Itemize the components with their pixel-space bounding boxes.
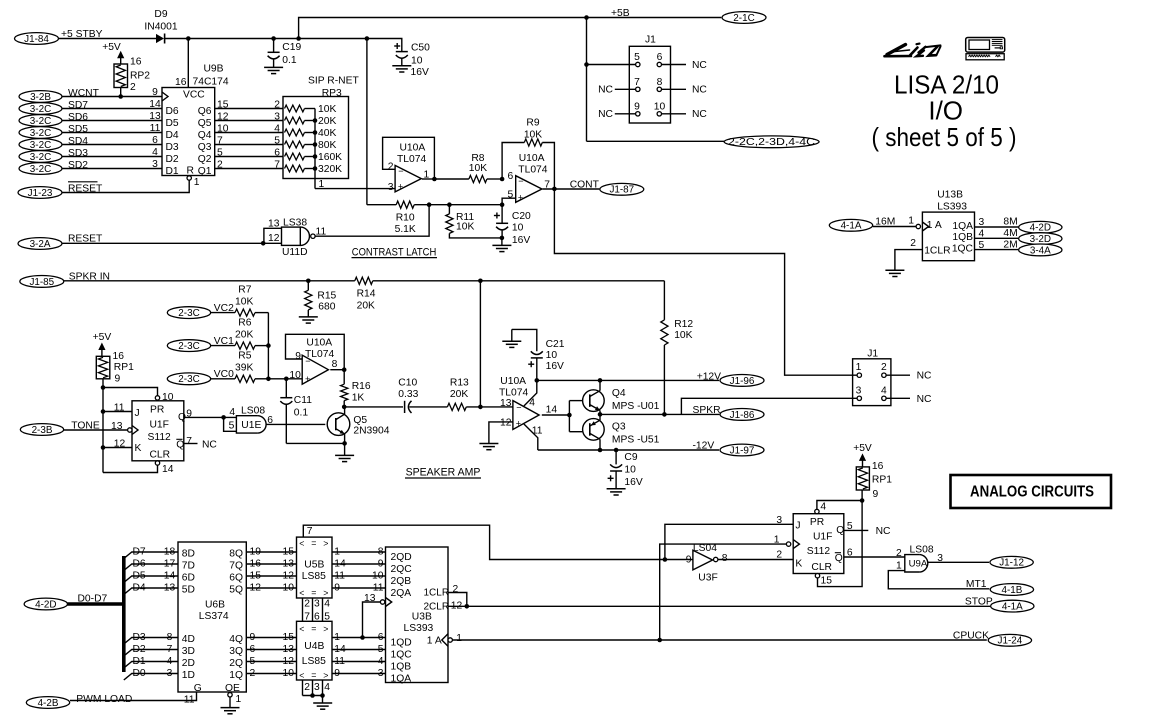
svg-text:+: + [518,193,523,203]
svg-text:16: 16 [130,57,142,68]
op-amp U10A (contrast) TL074 [516,176,542,203]
svg-text:+: + [398,181,403,191]
svg-text:16: 16 [175,77,187,88]
wire SD6 [62,120,162,122]
junction U11D inputs [261,241,266,246]
resistor RP3 element 80K [285,141,305,148]
svg-text:5: 5 [217,148,223,159]
wire U9A output [928,561,989,563]
svg-text:+5V: +5V [102,42,121,53]
junction output/base bus [567,413,572,418]
svg-text:4-2B: 4-2B [38,698,59,709]
junction node pin5 [500,202,505,207]
pin 6 J1 [657,62,661,66]
pin 10 J1 [657,112,661,116]
svg-text:U11D: U11D [282,247,308,258]
svg-text:3-2C: 3-2C [30,152,51,163]
svg-text:5D: 5D [182,584,195,595]
svg-text:U9B: U9B [204,64,224,75]
svg-text:4: 4 [378,656,384,667]
svg-text:J1-87: J1-87 [609,185,634,196]
svg-text:CONTRAST LATCH: CONTRAST LATCH [352,246,437,258]
svg-text:−: − [516,402,521,412]
svg-text:Q5: Q5 [353,415,367,426]
resistor R7 10K [211,312,235,314]
wire U6B 1Q [246,673,296,675]
IC U9B 74C174 box [162,88,215,176]
svg-text:Q: Q [836,525,844,536]
svg-text:1: 1 [194,177,200,188]
svg-text:74C174: 74C174 [193,77,229,88]
wire SD3 [62,156,162,158]
svg-text:17: 17 [164,558,176,569]
transistor Q3 MPS-U51 [583,419,605,441]
bus D0-D7 [68,602,124,606]
junction at D9/U9B VCC [186,36,191,41]
svg-text:TL074: TL074 [499,388,528,399]
svg-text:R: R [187,166,194,177]
wire CONT to J1 pin1 [554,189,857,375]
op-amp1 feedback wire [422,178,435,180]
svg-text:2: 2 [896,548,902,559]
svg-text:2QD: 2QD [391,552,412,563]
svg-text:15: 15 [821,576,833,587]
svg-text:8: 8 [722,553,728,564]
svg-text:1: 1 [896,560,902,571]
svg-text:1: 1 [424,170,430,181]
svg-text:10K: 10K [456,222,474,233]
wire STOP [448,605,990,607]
wire U6B 3Q [246,649,296,651]
svg-text:14: 14 [164,570,176,581]
svg-text:LS08: LS08 [910,544,934,555]
svg-text:1CLR: 1CLR [924,246,950,257]
wire 16M [873,226,916,228]
wire pin5 riser [502,198,516,205]
IC U6B LS374 box [178,542,246,692]
capacitor C20 10 16V [501,205,503,223]
svg-text:MPS -U51: MPS -U51 [612,434,660,445]
junction SPKR node [598,412,603,417]
svg-text:2QC: 2QC [391,564,413,575]
junction U3F input [663,557,668,562]
junction Q/U1E [221,415,226,420]
pin 3 J1b [857,396,861,400]
svg-text:20K: 20K [357,301,375,312]
svg-text:8: 8 [332,359,338,370]
label box ANALOG CIRCUITS [951,475,1112,508]
svg-text:13: 13 [283,644,295,655]
svg-text:7D: 7D [182,560,195,571]
svg-text:80K: 80K [318,140,336,151]
wire U4B out 2 [332,661,386,663]
junction R12/SPKR [662,412,667,417]
wire SPKR [600,413,719,415]
svg-text:14: 14 [546,404,558,415]
pin 1 J1b [857,373,861,377]
svg-text:3: 3 [314,598,320,609]
svg-text:5: 5 [847,521,853,532]
svg-text:16: 16 [113,351,125,362]
svg-text:3: 3 [167,668,173,679]
svg-text:U13B: U13B [937,189,963,200]
op-amp U10A (buffer) TL074 [395,165,421,192]
svg-text:2: 2 [881,362,887,373]
wire J1 pin 7 NC [615,88,636,90]
svg-text:RP1: RP1 [872,475,892,486]
svg-text:6Q: 6Q [229,572,243,583]
connector oval 3-4A [1019,244,1062,256]
svg-text:13: 13 [149,111,161,122]
svg-text:10: 10 [283,582,295,593]
junction R13 drop [478,279,483,284]
svg-text:1QB: 1QB [391,662,412,673]
svg-text:15: 15 [250,570,262,581]
svg-text:K: K [795,559,802,570]
junction R10/U11D [427,202,432,207]
svg-text:9: 9 [115,373,121,384]
flip-flop U1F S112 box [132,401,184,461]
svg-text:PR: PR [810,517,824,528]
wire U11D output [315,205,429,237]
capacitor C10 0.33 [344,406,403,408]
svg-text:10: 10 [546,350,558,361]
resistor R6 20K [211,345,235,347]
svg-text:3: 3 [378,668,384,679]
wire D0 [124,674,178,681]
svg-text:15: 15 [217,100,229,111]
Lisa script logo [885,44,941,57]
wire U6B 6Q [246,575,296,577]
junction U4B gnd b [320,693,325,698]
svg-text:G: G [194,683,202,694]
and gate U1E LS08 [224,417,237,431]
svg-text:J1: J1 [867,348,878,359]
wire CONT output [543,188,600,190]
junction VC1 [266,343,271,348]
wire TONE [64,429,128,431]
svg-text:SPKR: SPKR [693,405,721,416]
svg-text:16: 16 [250,558,262,569]
svg-text:C50: C50 [411,42,430,53]
junction R10/R11 [447,202,452,207]
wire U5B pin7 net [303,525,665,559]
svg-text:3: 3 [152,159,158,170]
junction RP3 bus [313,142,318,147]
svg-text:R5: R5 [238,351,251,362]
svg-text:1Q: 1Q [229,670,243,681]
svg-text:1: 1 [908,215,914,226]
connector oval 4-2D [1019,221,1062,233]
junction RP3 bus [313,130,318,135]
wire D3 [124,638,178,645]
svg-text:2QB: 2QB [391,576,412,587]
svg-text:U10A: U10A [500,376,526,387]
svg-text:C11: C11 [294,395,312,406]
connector oval 3-2A [18,238,62,250]
svg-text:4: 4 [820,502,826,513]
wire U6B 8Q [246,551,296,553]
resistor R14 20K [355,277,373,284]
svg-text:9: 9 [686,554,692,565]
wire D2 [124,650,178,657]
junction R16 top [342,367,347,372]
svg-text:4-1B: 4-1B [1001,585,1022,596]
svg-text:4D: 4D [182,634,195,645]
svg-text:+: + [516,418,521,428]
connector oval 4-1A (16M) [829,219,872,231]
svg-text:6: 6 [274,148,280,159]
connector oval 3-2B (WCNT) [19,91,62,103]
svg-text:4M: 4M [1003,228,1017,239]
svg-text:10: 10 [512,222,524,233]
junction RP3 bus [313,154,318,159]
inverter U3F LS04 [665,559,693,561]
wire U4B out 1 [332,649,386,651]
svg-text:J1-96: J1-96 [730,376,755,387]
svg-text:S112: S112 [148,432,172,443]
transistor Q5 2N3904 [327,413,350,436]
junction C21/+12V [535,378,540,383]
reset bubble U9B pin 1 [187,176,191,180]
svg-text:2CLR: 2CLR [424,602,450,613]
junction R8/pin6 [500,177,505,182]
svg-text:D9: D9 [154,9,167,20]
svg-text:12: 12 [250,582,262,593]
svg-text:4: 4 [881,385,887,396]
svg-text:D7: D7 [133,546,146,557]
svg-text:( sheet 5 of 5 ): ( sheet 5 of 5 ) [872,122,1017,152]
svg-text:16V: 16V [624,477,642,488]
svg-text:STOP: STOP [965,596,993,607]
wire drop to R13 node [479,281,481,407]
wire U4B out 3 [332,673,386,675]
connector oval 4-2B [26,697,69,709]
svg-text:U9A: U9A [909,558,928,569]
svg-text:7: 7 [634,77,640,88]
connector oval J1-12 [990,556,1033,568]
wire WCNT [62,96,162,98]
svg-text:9: 9 [295,351,301,362]
wire pin12 ground [489,422,513,444]
svg-text:=: = [311,538,316,548]
svg-text:7: 7 [186,436,192,447]
ground C20 [501,238,503,246]
junction RP3 bus [313,166,318,171]
svg-text:R14: R14 [357,289,376,300]
svg-text:11: 11 [334,570,345,581]
IC U4B LS85 box [297,621,333,680]
junction K [101,445,106,450]
svg-text:CONT: CONT [570,179,600,190]
wire Q output [184,416,237,418]
svg-text:U3F: U3F [698,573,717,584]
svg-text:14: 14 [149,99,161,110]
connector J1 (pins 1-4) box [853,359,891,406]
wire RESET 3-2A [62,242,263,244]
svg-text:1CLR: 1CLR [424,588,450,599]
connector oval 3-2C (SD4) [19,139,62,151]
svg-text:D5: D5 [166,118,179,129]
svg-text:18: 18 [164,546,176,557]
svg-text:D2: D2 [166,154,179,165]
svg-text:-12V: -12V [693,441,715,452]
svg-text:11: 11 [114,403,125,414]
wire U1E out to Q5 base [266,423,325,425]
svg-text:10K: 10K [469,163,487,174]
pin 2 J1b [882,373,886,377]
svg-text:TONE: TONE [71,421,100,432]
svg-text:20K: 20K [318,116,336,127]
wire Qbar to U9A [844,556,905,558]
svg-text:9: 9 [186,408,192,419]
svg-text:+12V: +12V [697,372,721,383]
wire J1 pin 8 NC [662,88,687,90]
wire RP2 to WCNT [120,88,122,97]
svg-text:−: − [305,356,310,366]
svg-text:13: 13 [268,218,280,229]
svg-text:2: 2 [130,82,136,93]
junction 1CLR/2CLR [465,604,470,609]
svg-text:NC: NC [917,371,932,382]
svg-text:1QD: 1QD [391,638,412,649]
svg-text:680: 680 [318,301,335,312]
wire U9B Q3 to RP3 [215,144,283,146]
svg-text:LS374: LS374 [199,611,229,622]
junction C9 [614,448,619,453]
Lisa computer icon [966,38,1005,53]
svg-text:16V: 16V [546,361,564,372]
connector oval 2-3C (VC2) [167,307,210,319]
svg-text:Q6: Q6 [198,106,212,117]
clock bubble U1F2 pin1 [786,542,790,546]
svg-text:3-2C: 3-2C [30,116,51,127]
IC U13B LS393 box [922,212,974,261]
svg-text:NC: NC [692,85,707,96]
svg-text:CLR: CLR [150,450,171,461]
svg-text:J1: J1 [645,35,656,46]
clock bubble U13B pin1 [916,224,920,228]
svg-text:4: 4 [324,682,330,693]
junction op-amp1 output [432,177,437,182]
svg-text:U6B: U6B [205,600,225,611]
resistor R9 10K feedback [502,143,524,180]
svg-text:NC: NC [598,85,613,96]
wire J1b pin4 NC [886,397,910,399]
wire 4M [975,237,1019,239]
svg-text:LS85: LS85 [302,571,326,582]
wire D7 [124,552,178,559]
svg-text:8M: 8M [1003,217,1017,228]
pin 4 J1b [882,396,886,400]
svg-text:+5B: +5B [611,8,630,19]
svg-text:3D: 3D [182,646,195,657]
svg-text:16V: 16V [411,67,429,78]
op-amp3 feedback wire [330,369,344,371]
svg-text:D5: D5 [133,570,146,581]
wire D1 [124,662,178,669]
svg-text:6: 6 [378,632,384,643]
svg-text:5Q: 5Q [229,584,243,595]
wire K input [103,447,132,449]
wire clock from CPUCK [660,544,787,640]
svg-text:11: 11 [373,582,384,593]
svg-text:Q: Q [176,440,184,451]
svg-text:SPEAKER AMP: SPEAKER AMP [406,467,481,479]
svg-text:16: 16 [872,461,884,472]
svg-text:8: 8 [167,632,173,643]
svg-text:0.33: 0.33 [398,389,418,400]
svg-text:3-2C: 3-2C [30,164,51,175]
svg-text:1: 1 [856,362,862,373]
svg-text:3-2C: 3-2C [30,140,51,151]
svg-text:D0-D7: D0-D7 [78,594,108,605]
clear bubble U1F2 pin15 [815,574,819,578]
svg-text:1QC: 1QC [952,243,974,254]
svg-text:TL074: TL074 [518,165,547,176]
svg-text:I/O: I/O [928,96,963,126]
junction op-amp2 output [552,187,557,192]
svg-text:15: 15 [283,632,295,643]
wire Q3 base [569,431,583,433]
svg-text:7: 7 [307,526,313,537]
svg-text:J1-97: J1-97 [730,445,755,456]
svg-text:TL074: TL074 [397,154,426,165]
resistor RP3 element 160K [285,153,305,160]
svg-text:5.1K: 5.1K [395,224,416,235]
svg-text:10: 10 [217,124,229,135]
wire J1 pin 10 NC [662,113,687,115]
junction RP2/WCNT [118,94,123,99]
wire CLR to pullup [818,490,863,587]
svg-text:1: 1 [456,633,462,644]
wire J input U1F2 [665,524,793,559]
svg-text:12: 12 [268,233,280,244]
svg-text:9: 9 [634,101,640,112]
svg-text:VCC: VCC [183,90,205,101]
wire U5B out 1 [332,563,386,565]
svg-text:C9: C9 [624,452,637,463]
junction PR/RP1 [860,498,865,503]
svg-text:Q3: Q3 [198,142,212,153]
svg-text:12: 12 [217,112,229,123]
resistor R8 10K [434,178,469,180]
svg-text:6: 6 [847,548,853,559]
connector oval 3-2C (SD3) [19,151,62,163]
and gate U9A LS08 [905,555,919,572]
svg-text:3: 3 [776,515,782,526]
svg-text:J1-84: J1-84 [24,34,49,45]
wire 2A clock [363,602,381,638]
svg-text:11: 11 [532,425,543,436]
svg-text:3: 3 [856,385,862,396]
resistor R16 1K [343,370,345,385]
svg-text:160K: 160K [318,152,342,163]
svg-text:U10A: U10A [306,338,332,349]
svg-text:>: > [323,671,328,681]
connector oval J1-24 [988,634,1031,646]
resistor R10 5.1K [367,204,396,206]
svg-text:2: 2 [910,238,916,249]
svg-text:0.1: 0.1 [294,408,309,419]
connector oval J1-84 [15,33,59,45]
junction Q4/+12V [598,378,603,383]
svg-text:14: 14 [162,464,174,475]
resistor RP3 element 20K [285,117,305,124]
svg-text:39K: 39K [235,363,253,374]
pin 9 J1 [636,112,640,116]
svg-text:D4: D4 [166,130,179,141]
